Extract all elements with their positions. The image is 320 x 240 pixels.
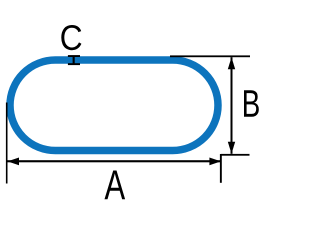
extension line top (B) (170, 55, 250, 57)
arrowhead B top (228, 57, 235, 69)
extension line right (A) (220, 154, 222, 183)
dimension line A (8, 160, 221, 162)
label A (105, 171, 126, 200)
extension line bottom (B) (221, 154, 250, 156)
arrowhead A left (8, 158, 20, 166)
label B (244, 90, 259, 116)
label C (61, 25, 81, 50)
wall-thickness tick C (I-beam marker) (68, 55, 80, 57)
arrowhead A right (209, 158, 221, 166)
extension line left (A) (6, 103, 8, 184)
arrowhead B bottom (228, 142, 235, 154)
tube outline (blue obround profile) (10, 60, 218, 151)
dimension line B (231, 57, 233, 154)
